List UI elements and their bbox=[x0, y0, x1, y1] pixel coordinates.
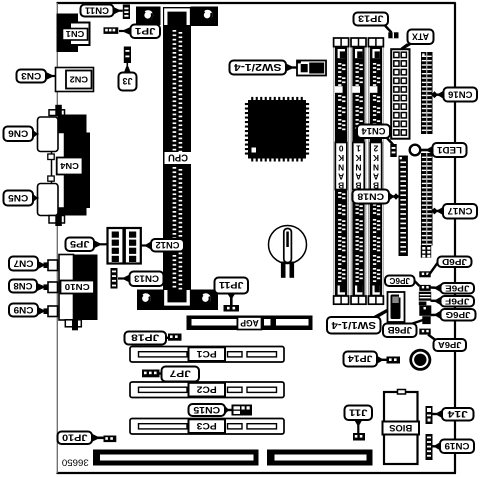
slot ISA2 inner bbox=[275, 455, 367, 461]
wire CN19 pointer bbox=[433, 445, 441, 447]
svg-text:CN8: CN8 bbox=[14, 281, 33, 291]
label CN13 bbox=[130, 272, 164, 287]
svg-text:PC1: PC1 bbox=[197, 349, 217, 359]
jumper JP13 bbox=[388, 32, 398, 38]
label JP13 bbox=[354, 13, 389, 26]
wire JP18 pointer bbox=[166, 337, 168, 339]
slot PC2 body bbox=[130, 382, 284, 398]
svg-text:CPU: CPU bbox=[168, 152, 188, 163]
mounting bracket top-right bbox=[191, 7, 219, 27]
header CN15 bbox=[232, 405, 253, 416]
CPU slot pin row C bbox=[173, 167, 177, 169]
port CN5 D-sub bbox=[38, 184, 59, 216]
label JP6G bbox=[441, 309, 476, 321]
svg-text:JP6D: JP6D bbox=[442, 257, 467, 267]
svg-text:J11: J11 bbox=[348, 406, 367, 417]
connector CN1 body bbox=[57, 14, 79, 53]
mounting hole bottom-left bbox=[141, 293, 151, 303]
wire JP6E pointer bbox=[431, 286, 441, 289]
wire JP14 pointer bbox=[377, 359, 387, 361]
connector CN10 label bbox=[61, 281, 95, 294]
label PC1 bbox=[189, 347, 226, 361]
svg-text:J14: J14 bbox=[448, 409, 468, 419]
jack CN7 bbox=[48, 260, 58, 271]
pin header CN16 bbox=[421, 52, 433, 134]
jumper JP6D bbox=[419, 271, 430, 277]
board outline top edge bbox=[57, 2, 456, 4]
connector CN4 white strip bbox=[52, 133, 65, 209]
mounting hole right bbox=[409, 349, 431, 371]
DIMM slot BANK1 body bbox=[352, 47, 364, 299]
DIMM slot BANK2 pins lower bbox=[373, 192, 376, 194]
label BANK 0 bbox=[335, 143, 346, 190]
slot AGP inner right bbox=[276, 319, 309, 326]
wire JP1 pointer bbox=[119, 30, 131, 32]
header J14 bbox=[426, 406, 433, 424]
wire JP10 pointer bbox=[92, 436, 104, 439]
slot AGP inner left bbox=[192, 319, 237, 326]
board outline left edge bbox=[56, 3, 58, 473]
wire JP6F pointer bbox=[431, 300, 441, 303]
wire LED1 pointer bbox=[421, 149, 433, 152]
wire CN14 pointer bbox=[386, 137, 393, 145]
label SW1/1-4 bbox=[327, 317, 381, 334]
label LED1 bbox=[433, 143, 467, 157]
svg-text:A: A bbox=[355, 172, 361, 182]
connector CN2 label bbox=[66, 71, 92, 89]
mounting bracket bottom bbox=[137, 290, 218, 311]
svg-text:SW2/1-4: SW2/1-4 bbox=[233, 61, 281, 72]
svg-text:CN3: CN3 bbox=[21, 71, 41, 81]
label BIOS bbox=[383, 422, 420, 435]
connector CN2 body bbox=[56, 68, 94, 92]
DIMM slot BANK1 rails bbox=[350, 40, 352, 302]
label JP6B bbox=[383, 324, 417, 338]
label CN6 bbox=[4, 127, 34, 142]
DIMM slot BANK2 bottom latch bbox=[372, 286, 379, 295]
svg-text:LED1: LED1 bbox=[437, 145, 462, 155]
label ATX bbox=[408, 30, 434, 45]
svg-text:PC2: PC2 bbox=[197, 384, 217, 394]
connector CN10 black part bbox=[74, 255, 98, 321]
svg-text:CN5: CN5 bbox=[8, 193, 28, 203]
jumper JP1 bbox=[104, 27, 119, 34]
label JP18 bbox=[125, 332, 167, 345]
CPU slot pin row A bbox=[173, 30, 177, 32]
battery holder left leg bbox=[281, 262, 286, 278]
tab between ports lower bbox=[48, 176, 54, 181]
svg-text:A: A bbox=[338, 172, 344, 182]
label JP6C bbox=[385, 276, 415, 287]
label SW2/1-4 bbox=[230, 61, 287, 75]
CPU slot body bbox=[163, 7, 191, 290]
DIMM slot BANK1 key notch bbox=[352, 86, 360, 93]
connector CN10 white part bbox=[59, 255, 74, 321]
LED LED1 bbox=[410, 145, 421, 156]
DIMM slot BANK2 top latch bbox=[372, 49, 379, 58]
jumper block JP6C/JP6E bbox=[419, 285, 430, 291]
svg-text:CN17: CN17 bbox=[448, 206, 473, 216]
wire JP5 pointer bbox=[94, 243, 108, 245]
label JP5 bbox=[66, 238, 95, 252]
svg-text:JP6A: JP6A bbox=[438, 340, 462, 350]
jumper J11 bbox=[353, 433, 365, 441]
svg-text:B: B bbox=[338, 180, 344, 190]
slot PC3 inner mid bbox=[228, 424, 243, 429]
wire JP6D pointer bbox=[429, 262, 439, 276]
wire JP7 pointer bbox=[160, 372, 162, 374]
wire CN11 pointer bbox=[113, 10, 123, 12]
mounting hole bottom-right bbox=[201, 293, 211, 303]
svg-text:CN11: CN11 bbox=[85, 5, 109, 15]
svg-text:2: 2 bbox=[373, 143, 378, 153]
DIMM slot BANK0 body bbox=[335, 47, 347, 299]
label CN15 bbox=[189, 404, 226, 416]
jumper block JP6F bbox=[419, 302, 427, 306]
mounting hole top-right bbox=[202, 10, 212, 20]
wire SW2 pointer bbox=[286, 66, 297, 68]
svg-text:CN7: CN7 bbox=[14, 258, 34, 268]
header grid below CN17 bbox=[421, 246, 431, 258]
connector CN1 label bbox=[63, 29, 88, 41]
CPU label bbox=[165, 152, 192, 164]
wire JP13 pointer bbox=[384, 25, 392, 33]
svg-text:JP1: JP1 bbox=[134, 25, 155, 36]
svg-text:N: N bbox=[373, 162, 379, 172]
svg-text:SW1/1-4: SW1/1-4 bbox=[331, 319, 376, 330]
label CN12 bbox=[151, 239, 184, 252]
slot PC2 inner mid bbox=[228, 387, 243, 392]
svg-text:CN16: CN16 bbox=[448, 89, 473, 99]
label CN7 bbox=[9, 257, 38, 271]
label CN18 bbox=[353, 190, 390, 204]
DIMM slot BANK0 bottom latch bbox=[338, 286, 345, 295]
battery holder right leg bbox=[290, 262, 295, 278]
svg-text:K: K bbox=[373, 153, 379, 163]
DIMM slot BANK1 top latch bbox=[355, 49, 362, 58]
slot ISA1 body bbox=[93, 450, 259, 466]
wire JP11 pointer bbox=[230, 296, 233, 305]
wire ATX pointer bbox=[401, 44, 414, 51]
svg-text:1: 1 bbox=[356, 143, 361, 153]
switch SW2 body bbox=[297, 61, 326, 76]
svg-text:CN6: CN6 bbox=[8, 129, 28, 139]
connector CN4 top tab bbox=[49, 110, 65, 116]
label JP6D bbox=[438, 257, 472, 268]
chipset U1 pins bbox=[245, 103, 248, 105]
slot PC3 inner left bbox=[139, 424, 188, 429]
slot ISA1 inner bbox=[100, 455, 254, 461]
label J3 bbox=[119, 73, 137, 91]
svg-text:JP6G: JP6G bbox=[446, 310, 471, 320]
svg-text:AGP: AGP bbox=[240, 318, 259, 328]
jumper JP18 bbox=[168, 334, 182, 341]
svg-text:CN14: CN14 bbox=[362, 126, 386, 136]
label CN14 bbox=[357, 125, 390, 139]
CPU slot pin row D bbox=[179, 169, 183, 171]
slot AGP inner mid bbox=[264, 319, 271, 326]
pin header CN17 bbox=[421, 153, 433, 246]
mounting hole top-left bbox=[143, 10, 153, 20]
switch SW1 body bbox=[388, 292, 405, 322]
slot ISA2 body bbox=[267, 450, 373, 466]
wire J14 pointer bbox=[433, 413, 443, 415]
DIMM slot BANK2 rails bbox=[368, 40, 370, 302]
svg-text:CN18: CN18 bbox=[357, 191, 384, 201]
wire CN3 pointer bbox=[46, 75, 56, 77]
label JP10 bbox=[58, 432, 93, 445]
DIMM slot BANK1 bottom cap bbox=[351, 296, 366, 304]
DIMM slot BANK0 pins lower bbox=[338, 192, 341, 194]
svg-text:JP6C: JP6C bbox=[390, 276, 411, 286]
svg-text:K: K bbox=[355, 153, 361, 163]
label PC3 bbox=[189, 419, 226, 433]
chipset U1 pin1 mark bbox=[252, 148, 257, 153]
jack CN8 bbox=[48, 282, 58, 293]
svg-text:CN1: CN1 bbox=[66, 29, 85, 39]
CPU slot top latch bbox=[166, 10, 188, 25]
svg-text:CN15: CN15 bbox=[193, 405, 220, 415]
CPU slot bottom latch bbox=[166, 290, 188, 304]
DIMM slot BANK0 bottom cap bbox=[334, 296, 349, 304]
header J3 bbox=[124, 47, 131, 64]
slot PC3 inner right bbox=[247, 424, 277, 429]
slot PC1 inner mid bbox=[228, 352, 243, 357]
wire J11 pointer bbox=[357, 420, 359, 433]
DIMM slot BANK0 pins upper bbox=[338, 63, 341, 65]
DIMM slot BANK0 top latch bbox=[338, 49, 345, 58]
label BANK 1 bbox=[353, 143, 364, 190]
header CN14 bbox=[390, 144, 396, 157]
header CN12 bbox=[125, 228, 141, 264]
wire JP6C pointer bbox=[415, 281, 420, 286]
label JP1 bbox=[131, 25, 161, 39]
battery holder clip bbox=[284, 229, 292, 263]
wire JP6G pointer bbox=[431, 314, 441, 317]
svg-text:ATX: ATX bbox=[411, 30, 429, 41]
connector CN10 bottom tab bbox=[65, 320, 81, 327]
svg-text:N: N bbox=[355, 162, 361, 172]
label JP14 bbox=[344, 352, 378, 367]
label JP6A bbox=[434, 339, 467, 351]
wire CN17 pointer bbox=[433, 210, 443, 212]
svg-text:K: K bbox=[338, 153, 344, 163]
label CN3 bbox=[17, 70, 47, 83]
chip BIOS notch bbox=[398, 390, 406, 395]
label JP6F bbox=[441, 296, 475, 307]
battery BT1 bbox=[269, 226, 307, 264]
wire CN18 pointer bbox=[389, 195, 399, 197]
svg-text:CN13: CN13 bbox=[134, 274, 159, 284]
label J11 bbox=[345, 406, 373, 421]
svg-text:CN19: CN19 bbox=[445, 441, 470, 451]
slot PC2 inner left bbox=[139, 387, 188, 392]
DIMM slot BANK2 key notch bbox=[370, 86, 378, 93]
svg-text:JP6B: JP6B bbox=[387, 325, 412, 335]
svg-text:JP18: JP18 bbox=[131, 332, 159, 343]
wire CN13 pointer bbox=[118, 277, 130, 279]
jumper JP6A bbox=[419, 329, 430, 335]
DIMM slot BANK0 top cap bbox=[334, 38, 349, 47]
header CN11 bbox=[123, 5, 130, 20]
label CN17 bbox=[443, 204, 477, 219]
label CN19 bbox=[440, 440, 474, 454]
CPU slot pin row B bbox=[179, 32, 183, 34]
slot PC1 inner right bbox=[247, 352, 277, 357]
svg-text:PC3: PC3 bbox=[197, 421, 217, 431]
tab between ports upper bbox=[48, 154, 54, 160]
label J14 bbox=[442, 408, 474, 421]
header CN18 bbox=[399, 156, 408, 257]
DIMM slot BANK1 pins upper bbox=[356, 63, 359, 65]
wire CN5 pointer bbox=[33, 197, 39, 199]
DIMM slot BANK0 key notch bbox=[335, 86, 343, 93]
svg-text:CN10: CN10 bbox=[64, 282, 89, 292]
header CN13 bbox=[111, 268, 118, 289]
label PC2 bbox=[189, 383, 226, 397]
connector ATX pins bbox=[394, 52, 399, 57]
wire JP6B pointer bbox=[411, 320, 423, 324]
connector CN4 label bbox=[57, 158, 83, 175]
label JP6E bbox=[441, 283, 475, 294]
slot PC1 inner left bbox=[139, 352, 188, 357]
label CN5 bbox=[4, 191, 34, 206]
label CN9 bbox=[9, 304, 38, 317]
chipset U1 body bbox=[248, 100, 306, 159]
slot AGP body bbox=[187, 316, 313, 331]
svg-text:CN9: CN9 bbox=[14, 305, 34, 315]
svg-text:JP11: JP11 bbox=[218, 279, 243, 290]
slot PC3 body bbox=[130, 419, 284, 435]
svg-text:JP5: JP5 bbox=[70, 239, 90, 249]
label CN11 bbox=[81, 5, 114, 17]
svg-text:JP6E: JP6E bbox=[445, 283, 470, 293]
jumper JP11 bbox=[224, 305, 240, 312]
chip BIOS body bbox=[384, 392, 418, 464]
connector ATX body bbox=[391, 49, 409, 139]
wire CN16 pointer bbox=[433, 93, 444, 95]
DIMM slot BANK1 pins lower bbox=[356, 192, 359, 194]
board outline right edge bbox=[454, 3, 456, 473]
DIMM slot BANK1 top cap bbox=[351, 38, 366, 47]
label AGP bbox=[238, 317, 262, 330]
DIMM slot BANK2 top cap bbox=[368, 38, 383, 47]
label BANK 2 bbox=[370, 143, 381, 190]
DIMM slot BANK1 bottom latch bbox=[355, 286, 362, 295]
label CN8 bbox=[9, 280, 37, 293]
mounting bracket top-left bbox=[136, 7, 161, 26]
slot PC1 body bbox=[130, 347, 284, 363]
connector CN4 body bbox=[58, 115, 87, 216]
label JP11 bbox=[215, 278, 249, 294]
svg-text:JP7: JP7 bbox=[170, 368, 191, 379]
jumper block JP6G bbox=[422, 316, 430, 324]
wire CN6 pointer bbox=[33, 133, 39, 135]
svg-text:J3: J3 bbox=[123, 75, 133, 86]
svg-text:CN4: CN4 bbox=[60, 161, 79, 171]
DIMM slot BANK0 rails bbox=[333, 40, 335, 302]
wire J3 pointer bbox=[126, 63, 128, 73]
port CN6 D-sub bbox=[38, 117, 59, 152]
svg-text:BIOS: BIOS bbox=[389, 423, 412, 433]
jumper JP7 bbox=[142, 370, 160, 378]
wire SW1 pointer bbox=[371, 309, 389, 318]
label CN16 bbox=[444, 88, 478, 102]
svg-text:JP10: JP10 bbox=[62, 431, 88, 442]
svg-text:JP6F: JP6F bbox=[445, 296, 470, 306]
svg-text:0: 0 bbox=[338, 143, 343, 153]
slot PC2 inner right bbox=[247, 387, 277, 392]
wire CN15 pointer bbox=[225, 409, 232, 411]
jumper JP14 bbox=[387, 357, 401, 364]
DIMM slot BANK2 body bbox=[370, 47, 382, 299]
DIMM slot BANK2 bottom cap bbox=[368, 296, 383, 304]
label JP7 bbox=[162, 367, 200, 382]
svg-text:A: A bbox=[373, 172, 379, 182]
header JP5 bbox=[108, 228, 124, 264]
DIMM slot BANK2 pins upper bbox=[373, 63, 376, 65]
header CN19 bbox=[426, 434, 433, 460]
connector CN4 bottom tab bbox=[49, 216, 65, 224]
svg-text:JP13: JP13 bbox=[358, 13, 384, 24]
svg-text:CN2: CN2 bbox=[69, 74, 88, 84]
board outline bottom edge bbox=[57, 472, 457, 474]
svg-text:N: N bbox=[338, 162, 344, 172]
svg-text:JP14: JP14 bbox=[347, 353, 372, 364]
wire JP6A pointer bbox=[428, 335, 438, 342]
connector CN1 opening bbox=[70, 23, 90, 46]
jack CN9 bbox=[48, 306, 58, 317]
svg-text:36650: 36650 bbox=[62, 458, 89, 468]
wire CN12 pointer bbox=[141, 244, 151, 246]
svg-text:CN12: CN12 bbox=[155, 240, 179, 250]
jumper JP10 bbox=[104, 436, 117, 443]
